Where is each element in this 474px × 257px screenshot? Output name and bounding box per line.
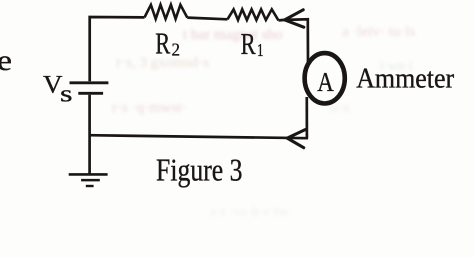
- decorative scan bleed-through (back of page): [183, 27, 283, 44]
- resistor R2: [145, 5, 188, 19]
- ammeter U1 circle: [305, 53, 345, 103]
- battery Vs: long positive plate: [70, 81, 109, 84]
- resistor R1: [228, 9, 279, 20]
- svg-text:2: 2: [172, 40, 181, 60]
- wire: ammeter bottom down to lower rail: [305, 97, 308, 138]
- svg-text:s: s: [60, 82, 73, 108]
- svg-text:R: R: [241, 26, 256, 61]
- svg-text:A: A: [317, 67, 334, 97]
- wire: left vertical + top-left horizontal run: [90, 17, 145, 81]
- svg-text:1: 1: [257, 40, 264, 60]
- wire: battery to ground: [88, 95, 91, 175]
- ground: bottom bar: [86, 185, 94, 187]
- wire: R1 to top-right corner, then down to ammeter: [279, 19, 309, 64]
- ground: top bar: [69, 173, 108, 176]
- svg-text:R: R: [155, 25, 170, 60]
- svg-text:Ammeter: Ammeter: [356, 63, 455, 94]
- battery Vs: short negative plate: [78, 92, 103, 95]
- svg-text:e: e: [0, 44, 12, 77]
- svg-text:Figure 3: Figure 3: [156, 152, 243, 187]
- wire: bottom rail: [89, 135, 308, 138]
- wire: top middle between R2 and R1: [187, 18, 227, 20]
- ground: middle bar: [81, 179, 100, 182]
- current arrow (top, pointing left): [285, 10, 304, 27]
- current arrow (bottom, pointing left): [287, 130, 305, 148]
